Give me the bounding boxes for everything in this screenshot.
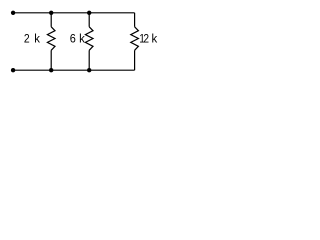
svg-text:2: 2 [143,33,149,46]
node junction top R2 [87,11,91,15]
svg-text:k: k [34,32,40,45]
node junction top R1 [49,11,53,15]
resistor R1 [47,27,55,51]
wire R3 bottom lead [134,50,136,70]
value label R2: 6 k [70,32,85,45]
wire R2 top lead [88,13,90,27]
resistor R3 [131,27,139,51]
value label R3: 12 k [139,32,157,45]
wire R2 bottom lead [88,50,90,70]
svg-text:6: 6 [70,33,76,46]
resistor R2 [85,27,93,51]
wire R1 top lead [50,13,52,27]
node terminal bottom-left [11,68,15,72]
wire bottom rail [13,69,135,71]
node terminal top-left [11,11,15,15]
wire top rail [13,12,135,14]
node junction bottom R1 [49,68,53,72]
node junction bottom R2 [87,68,91,72]
wire R1 bottom lead [50,50,52,70]
svg-text:k: k [79,32,85,45]
svg-text:k: k [151,32,157,45]
svg-text:2: 2 [24,33,30,46]
wire R3 top lead [134,13,136,27]
value label R1: 2 k [24,32,40,45]
